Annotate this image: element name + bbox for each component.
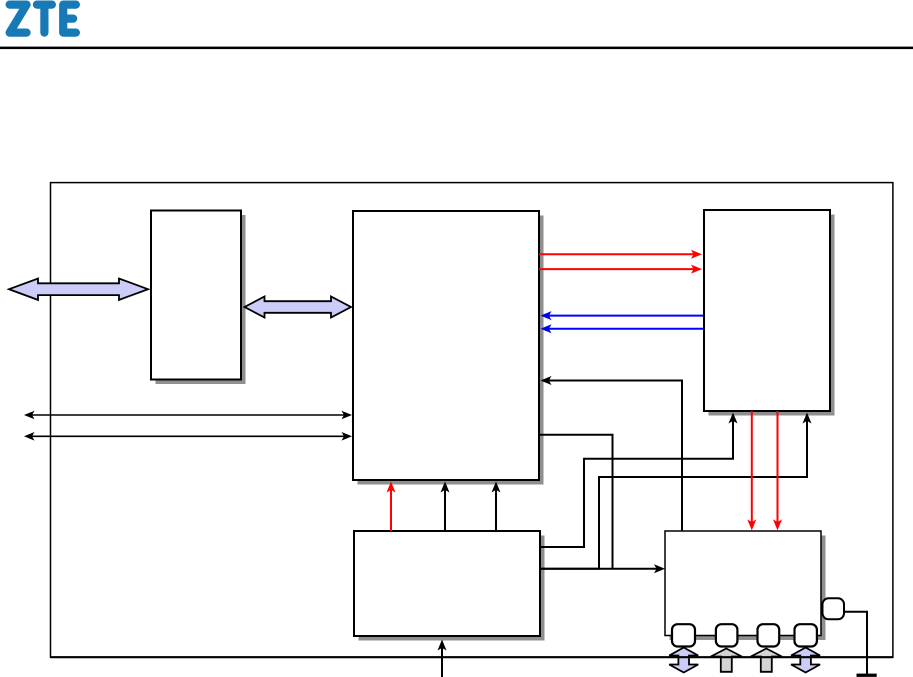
thick double arrow A2 (B1 to B2) [245, 297, 352, 318]
outer boundary bottom edge (drawn over small arrows) [51, 656, 893, 658]
port P4 [795, 624, 817, 646]
block B1 shadow [156, 215, 246, 384]
block B3 (right) [704, 210, 830, 411]
wire W2: B2 right edge down into B5 left edge [539, 435, 665, 574]
blue wire BL1 (B3 to B2) [541, 311, 704, 320]
small up arrow SA2 (below P2, gray) [711, 649, 742, 672]
block B1 [151, 211, 241, 380]
wire UV3: B4 top up into B2 bottom [492, 482, 501, 532]
ZTE logo [10, 5, 76, 33]
outer boundary rectangle [51, 183, 893, 658]
port P3 [758, 624, 780, 646]
block B4 (bottom-left) [354, 531, 540, 636]
red wire R1 (B2 to B3) [539, 250, 702, 259]
block B5 (bottom-right) shadow [670, 536, 826, 641]
wire W1: B5 top up then left into B2 right edge [541, 376, 683, 531]
block B4 (bottom-left) shadow [359, 536, 545, 641]
wire W4: B4 right edge up into B3 bottom (right) [540, 413, 812, 569]
block B5 (bottom-right) [665, 531, 821, 636]
double-headed wire D1 (left edge to B2) [24, 411, 352, 420]
port P2 [716, 624, 738, 646]
red wire UV1: B4 top up into B2 bottom [387, 482, 396, 532]
red wire R2 (B2 to B3) [539, 265, 702, 274]
small double arrow SA1 (below P1, lavender) [669, 648, 698, 673]
port P0 (right edge of B5) [823, 598, 845, 619]
double-headed wire D2 (left edge to B2) [24, 432, 352, 441]
blue wire BL2 (B3 to B2) [541, 324, 704, 333]
block B3 (right) shadow [709, 215, 835, 416]
wire UV2: B4 top up into B2 bottom [441, 482, 450, 532]
thick double arrow A1 (far left, into B1) [9, 279, 148, 300]
red wire RV1: B3 bottom down into B5 top [747, 411, 756, 530]
block B2 (central) [353, 211, 539, 480]
small up arrow SA3 (below P3, gray) [751, 649, 782, 672]
port P1 [672, 624, 695, 646]
small double arrow SA4 (below P4, lavender) [791, 648, 820, 673]
ground bar [857, 674, 877, 677]
wire UV4: from page bottom up into B4 bottom [438, 640, 447, 677]
wire W3: B4 right edge up into B3 bottom (left) [540, 413, 738, 548]
header rule [0, 47, 913, 50]
red wire RV2: B3 bottom down into B5 top [773, 411, 782, 530]
wire W5: small port to ground [844, 612, 867, 675]
block B2 (central) shadow [358, 216, 544, 485]
